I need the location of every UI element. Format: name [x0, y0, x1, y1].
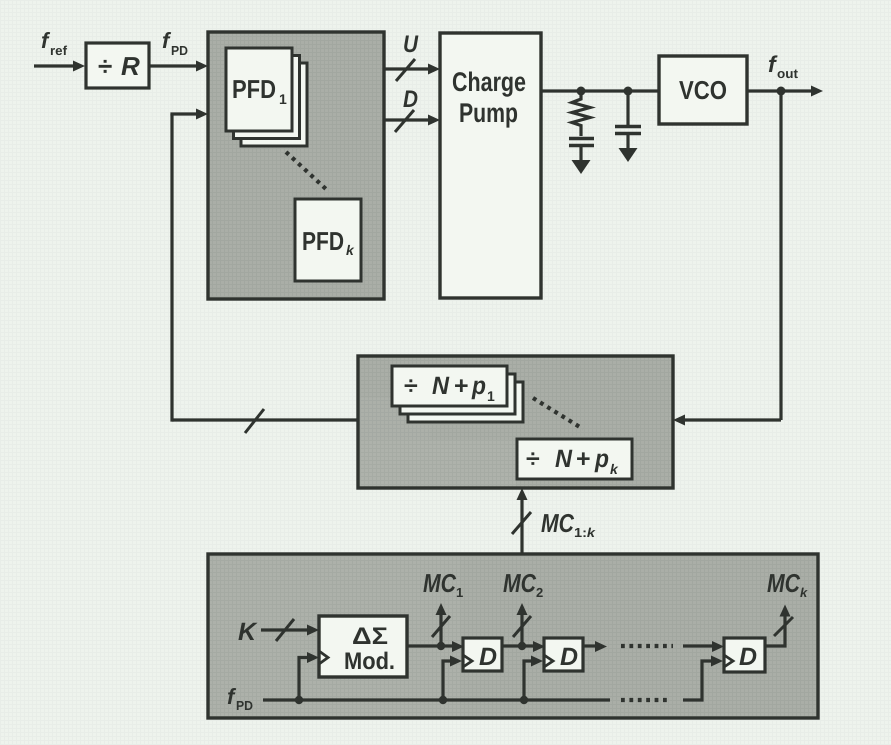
dotted ellipsis PFD stack — [286, 152, 327, 190]
svg-text:1:k: 1:k — [574, 525, 596, 540]
svg-text:D: D — [403, 86, 418, 113]
svg-text:out: out — [777, 66, 799, 81]
flip-flop D1 — [463, 638, 502, 671]
svg-text:PFD: PFD — [302, 226, 344, 256]
wire feedback into divider bank — [673, 415, 781, 426]
svg-text:Charge: Charge — [452, 67, 526, 97]
bus slash MCk — [774, 617, 793, 636]
wire MCk output — [765, 605, 791, 647]
PFD stack shadow card 1 — [234, 56, 300, 139]
flip-flop D2 — [544, 638, 583, 671]
flip-flop Dk — [724, 638, 765, 672]
svg-text:÷: ÷ — [526, 445, 540, 473]
svg-text:VCO: VCO — [679, 75, 727, 105]
junction node A — [577, 87, 586, 96]
svg-text:MC: MC — [423, 568, 457, 598]
svg-text:R: R — [121, 51, 140, 81]
PFD bank panel — [208, 32, 384, 299]
svg-text:Mod.: Mod. — [344, 648, 395, 675]
svg-text:U: U — [403, 31, 419, 58]
svg-text:k: k — [800, 585, 808, 600]
VCO U3 — [659, 56, 747, 124]
wire MC bus up to divider bank — [517, 488, 528, 554]
dotted ellipsis data chain — [621, 644, 673, 648]
capacitor C1 — [569, 139, 594, 162]
divider N+pk — [517, 439, 632, 479]
svg-text:MC: MC — [503, 568, 537, 598]
sigma-delta panel — [208, 554, 818, 718]
wire junction B down — [626, 91, 629, 126]
junction clock D2 — [520, 696, 528, 704]
resistor R2 loop filter — [572, 91, 590, 136]
divider N+p1 — [392, 366, 507, 406]
svg-text:MC: MC — [541, 508, 575, 538]
svg-text:1: 1 — [279, 91, 287, 107]
capacitor C2 — [615, 127, 641, 150]
svg-text:D: D — [739, 643, 757, 671]
wire feedback right vertical — [779, 91, 782, 420]
delta-sigma modulator U4 — [319, 616, 407, 677]
svg-text:k: k — [610, 461, 619, 477]
wire MC1 up — [436, 603, 447, 646]
bus slash D — [395, 110, 414, 132]
svg-text:MC: MC — [767, 568, 801, 598]
charge pump U2 — [440, 33, 541, 298]
clock chevron D1 — [463, 655, 472, 667]
wire VCO output — [747, 86, 823, 97]
svg-text:N: N — [555, 445, 573, 473]
wire clock to D1 — [443, 656, 462, 701]
svg-text:p: p — [471, 372, 486, 400]
divider stack shadow card 1 — [400, 374, 515, 414]
wire f_ref input — [34, 61, 85, 72]
node f_ref label — [41, 28, 68, 58]
clock chevron D2 — [544, 655, 553, 667]
svg-text:K: K — [238, 618, 258, 646]
node U label — [403, 31, 419, 58]
divider R1 (divide-by-R) — [86, 43, 149, 88]
wire clock to U4 — [299, 652, 319, 700]
svg-text:ΔΣ: ΔΣ — [352, 623, 388, 650]
node f_PD bottom label — [227, 684, 253, 713]
svg-text:÷: ÷ — [98, 51, 112, 81]
PFD stack shadow card 2 — [241, 63, 307, 146]
bus slash MC1 — [432, 616, 450, 637]
svg-text:+: + — [576, 445, 591, 473]
node MC2 label — [503, 568, 543, 600]
node D label — [403, 86, 418, 113]
svg-text:D: D — [479, 643, 497, 671]
dotted ellipsis divider stack — [533, 398, 583, 429]
clock chevron U4 — [319, 651, 328, 664]
wire DFF2 output stub — [583, 641, 607, 652]
junction MC1 tap — [437, 642, 445, 650]
node MC1 label — [423, 568, 463, 600]
wire U4 output to DFF1 — [407, 641, 464, 652]
PFDk — [295, 199, 361, 281]
node f_out label — [768, 51, 799, 81]
svg-text:2: 2 — [536, 585, 543, 600]
svg-text:÷: ÷ — [404, 372, 418, 400]
bus slash U — [396, 59, 415, 81]
junction node B — [624, 87, 633, 96]
node MC_1:k label — [541, 508, 596, 540]
node f_PD label — [162, 28, 188, 58]
wire divider output left — [172, 418, 358, 421]
wire clock to D2 — [524, 656, 543, 701]
svg-text:p: p — [594, 445, 609, 473]
svg-text:ref: ref — [50, 43, 68, 58]
wire clock step to DFFk — [683, 656, 723, 701]
wire f_PD clock rail — [263, 698, 610, 701]
wire feedback left vertical — [170, 114, 173, 422]
divider stack shadow card 2 — [408, 382, 523, 422]
bus slash MC — [512, 512, 531, 534]
wire D bus PFD to charge pump — [384, 115, 440, 126]
svg-text:+: + — [454, 372, 469, 400]
svg-text:k: k — [346, 242, 355, 258]
svg-text:PFD: PFD — [232, 74, 276, 104]
svg-text:1: 1 — [456, 585, 463, 600]
dotted ellipsis clock rail — [621, 698, 668, 702]
bus slash MC2 — [513, 616, 531, 637]
wire R to PFD — [149, 61, 208, 72]
svg-text:PD: PD — [171, 43, 188, 58]
wire U bus PFD to charge pump — [384, 64, 440, 75]
svg-text:D: D — [560, 643, 578, 671]
wire feedback into PFD — [170, 109, 208, 120]
bus slash feedback — [245, 409, 264, 433]
wire into DFFk — [683, 641, 724, 652]
wire MC2 up — [517, 603, 528, 646]
junction clock D1 — [439, 696, 447, 704]
PFD1 — [226, 48, 292, 131]
svg-text:Pump: Pump — [459, 98, 518, 128]
svg-text:N: N — [432, 372, 450, 400]
svg-text:PD: PD — [236, 698, 253, 713]
junction node f_out — [777, 87, 786, 96]
divider bank panel — [358, 356, 673, 488]
svg-text:1: 1 — [487, 388, 495, 404]
node MCk label — [767, 568, 808, 600]
wire charge pump to VCO — [541, 89, 659, 92]
bus slash K — [276, 619, 294, 641]
wire K input bus — [261, 625, 319, 636]
node K label — [238, 618, 258, 646]
ground arrow 1 — [572, 160, 591, 174]
clock chevron Dk — [724, 655, 733, 667]
junction clock U4 — [295, 696, 303, 704]
wire DFF1 to DFF2 — [502, 641, 545, 652]
junction MC2 tap — [518, 642, 526, 650]
ground arrow 2 — [619, 148, 638, 162]
